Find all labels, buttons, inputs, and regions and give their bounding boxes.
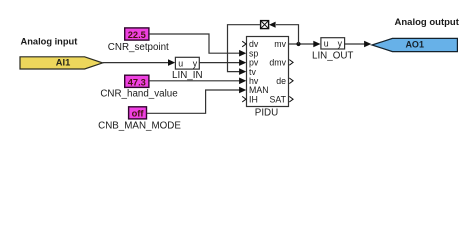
port marker dmv output: [289, 60, 293, 66]
wire LIN_OUT to AO1: [345, 43, 365, 45]
port marker SAT output: [289, 96, 293, 102]
svg-text:mv: mv: [274, 39, 286, 49]
wire LIN_IN to PIDU pv: [199, 62, 240, 64]
wire CNB_MAN_MODE to PIDU MAN: [147, 90, 241, 113]
svg-text:LIN_OUT: LIN_OUT: [312, 51, 353, 62]
constant CNR_hand_value 47.3: [125, 75, 149, 87]
port marker IH unconnected: [242, 96, 246, 102]
svg-text:CNB_MAN_MODE: CNB_MAN_MODE: [98, 121, 181, 132]
svg-text:de: de: [276, 76, 286, 86]
svg-text:IH: IH: [249, 94, 258, 104]
svg-text:PIDU: PIDU: [255, 107, 278, 118]
svg-text:off: off: [132, 109, 145, 119]
svg-text:y: y: [193, 59, 198, 69]
svg-text:SAT: SAT: [270, 94, 287, 104]
port marker dv unconnected: [242, 41, 246, 47]
constant CNR_setpoint 22.5: [125, 28, 149, 40]
svg-text:22.5: 22.5: [128, 30, 146, 40]
svg-text:y: y: [338, 39, 343, 49]
svg-text:AO1: AO1: [405, 40, 424, 50]
block PIDU: [247, 37, 289, 107]
svg-text:Analog input: Analog input: [21, 37, 78, 47]
block LIN_OUT: [321, 38, 345, 49]
svg-text:47.3: 47.3: [128, 77, 146, 87]
wire terminator to PIDU tv: [228, 25, 261, 72]
output flag AO1: [372, 38, 457, 51]
svg-text:dmv: dmv: [269, 58, 286, 68]
input flag AI1: [20, 57, 103, 69]
constant CNB_MAN_MODE off: [129, 107, 147, 119]
terminator X block: [261, 21, 269, 29]
svg-text:CNR_setpoint: CNR_setpoint: [108, 42, 169, 53]
svg-text:AI1: AI1: [56, 57, 70, 67]
wire PIDU mv to LIN_OUT: [289, 43, 315, 45]
svg-text:CNR_hand_value: CNR_hand_value: [100, 88, 178, 99]
wire CNR_setpoint to PIDU sp: [149, 34, 240, 53]
svg-text:u: u: [324, 39, 329, 49]
block LIN_IN: [175, 57, 199, 69]
junction node on mv wire: [296, 42, 300, 46]
svg-text:u: u: [178, 59, 183, 69]
feedback wire mv up to terminator: [276, 25, 299, 44]
svg-text:LIN_IN: LIN_IN: [172, 70, 203, 81]
wire AI1 to LIN_IN: [103, 62, 169, 64]
port marker de output: [289, 78, 293, 84]
wire CNR_hand_value to PIDU hv: [149, 80, 240, 82]
svg-text:Analog output: Analog output: [395, 17, 460, 28]
